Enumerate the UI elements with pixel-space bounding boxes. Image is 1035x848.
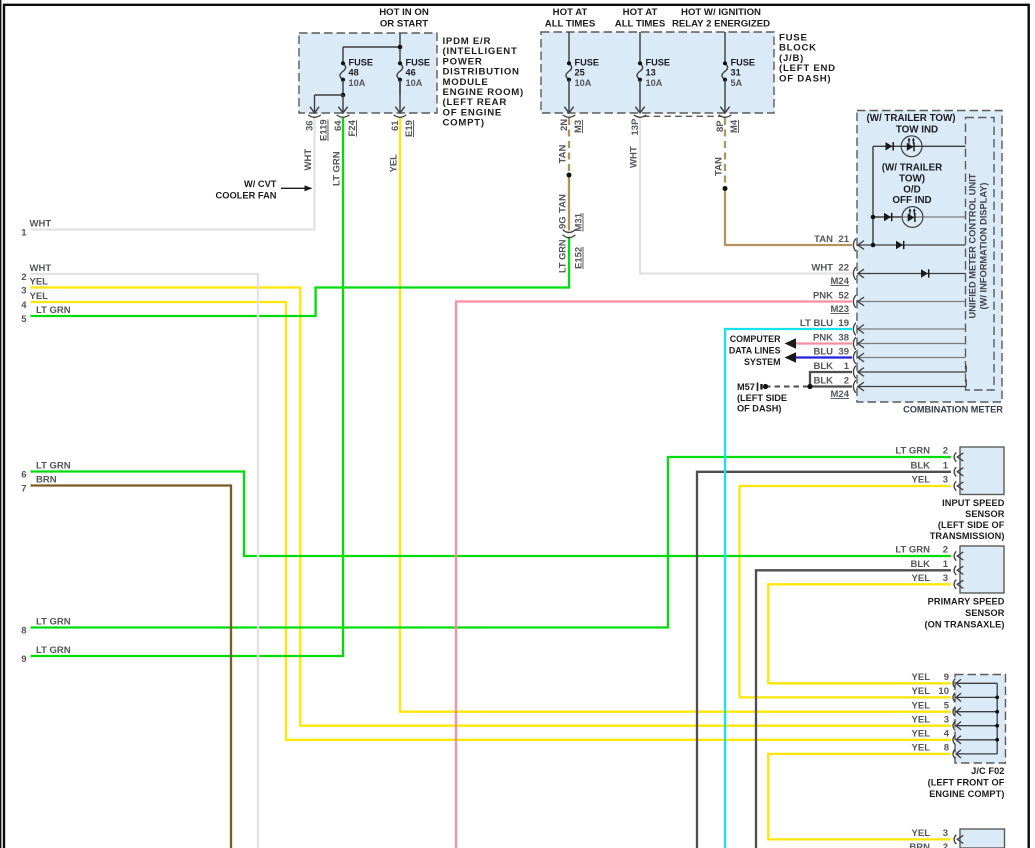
- svg-text:BLK: BLK: [910, 460, 930, 471]
- svg-text:LT GRN: LT GRN: [36, 645, 71, 656]
- wire TAN fuse 25 dashed segment: [568, 118, 570, 189]
- meter pin 38 inner wire: [858, 343, 966, 345]
- input speed sensor box: [960, 447, 1004, 495]
- svg-text:4: 4: [944, 728, 950, 739]
- svg-text:BLK: BLK: [910, 559, 930, 570]
- svg-text:WHT: WHT: [30, 219, 52, 230]
- diode on O/D branch: [884, 213, 891, 221]
- wire PNK meter pin 52 down off page: [456, 302, 852, 848]
- node: J/C bus junction: [995, 696, 999, 700]
- svg-text:10A: 10A: [646, 78, 663, 88]
- meter internal vertical bus: [872, 146, 874, 245]
- svg-text:5: 5: [944, 700, 950, 711]
- wire BLU meter pin 39 to data lines arrow: [794, 356, 852, 358]
- svg-text:HOT W/ IGNITION: HOT W/ IGNITION: [681, 7, 761, 18]
- svg-text:COMPT): COMPT): [443, 118, 485, 129]
- svg-text:FUSE: FUSE: [406, 58, 431, 68]
- svg-text:FUSE: FUSE: [575, 58, 600, 68]
- bottom box pin connector YEL 3: [954, 835, 956, 844]
- meter pin connector at y=386.5: [853, 380, 855, 393]
- svg-text:E19: E19: [404, 120, 415, 137]
- svg-text:TOW): TOW): [899, 174, 925, 185]
- diode on TOW IND branch: [886, 142, 893, 150]
- svg-text:3: 3: [944, 714, 949, 725]
- svg-text:2: 2: [844, 375, 849, 386]
- svg-text:BRN: BRN: [36, 475, 57, 486]
- svg-text:39: 39: [838, 346, 849, 357]
- primary speed sensor box: [960, 546, 1004, 593]
- J/C F02 pin connector y=739.8: [953, 735, 955, 744]
- svg-text:YEL: YEL: [912, 728, 931, 739]
- svg-text:3: 3: [21, 286, 26, 297]
- svg-text:SENSOR: SENSOR: [965, 509, 1005, 519]
- svg-text:O/D: O/D: [903, 185, 920, 196]
- svg-text:M31: M31: [574, 212, 585, 231]
- svg-text:HOT AT: HOT AT: [623, 7, 658, 18]
- wire W1 WHT row1 to IPDM pin 36: [31, 118, 315, 230]
- svg-text:19: 19: [838, 318, 849, 329]
- fuse block J/B box: [541, 32, 774, 113]
- wire YEL primary sensor pin3 to J/C F02 pin 9: [768, 584, 951, 683]
- node: J/C bus junction: [995, 738, 999, 742]
- svg-text:ENGINE COMPT): ENGINE COMPT): [929, 789, 1004, 799]
- LED O/D OFF IND: [902, 207, 923, 228]
- svg-text:M3: M3: [573, 120, 584, 133]
- meter pin connector at y=357.5: [853, 351, 855, 364]
- svg-text:COMBINATION METER: COMBINATION METER: [903, 405, 1003, 415]
- svg-text:2: 2: [21, 272, 26, 283]
- svg-text:8P: 8P: [715, 120, 726, 132]
- primary sensor pin connector y=584.3: [954, 580, 956, 589]
- svg-text:8: 8: [944, 743, 949, 754]
- svg-text:LT GRN: LT GRN: [36, 305, 71, 316]
- wire W2 WHT row2 down off page: [31, 274, 259, 848]
- wire W7 BRN row7 down off page: [31, 486, 232, 848]
- node: J/C bus junction: [995, 724, 999, 728]
- wire BLK meter pin1 to ground junction: [810, 372, 852, 387]
- svg-text:PRIMARY SPEED: PRIMARY SPEED: [928, 597, 1005, 607]
- O/D OFF IND branch wire: [873, 216, 901, 218]
- wire LT GRN fuse 48 down to row9: [31, 118, 344, 656]
- svg-text:ALL TIMES: ALL TIMES: [545, 19, 596, 30]
- svg-text:25: 25: [575, 67, 585, 77]
- svg-text:(ON TRANSAXLE): (ON TRANSAXLE): [924, 620, 1004, 630]
- J/C F02 pin connector y=725.7: [953, 721, 955, 730]
- svg-text:PNK: PNK: [813, 332, 833, 343]
- wire PNK meter pin 38 to data lines arrow: [794, 342, 852, 344]
- svg-text:9: 9: [944, 672, 949, 683]
- svg-text:OFF IND: OFF IND: [892, 195, 931, 206]
- svg-text:FUSE: FUSE: [646, 58, 671, 68]
- svg-text:6: 6: [21, 470, 26, 481]
- node: BLK junction near meter pins 1/2: [807, 384, 812, 389]
- IPDM pin 36 connector: [314, 95, 316, 112]
- svg-text:52: 52: [838, 290, 849, 301]
- in-line connector M31 / E152: [563, 230, 576, 233]
- svg-text:3: 3: [943, 475, 948, 486]
- input sensor pin connector y=471.8: [954, 467, 956, 476]
- input sensor pin connector y=486: [954, 481, 956, 490]
- svg-text:PNK: PNK: [813, 290, 833, 301]
- svg-text:10A: 10A: [575, 78, 592, 88]
- TOW IND branch wire: [873, 145, 966, 147]
- svg-text:36: 36: [305, 120, 316, 131]
- unified meter control unit inner box: [966, 118, 995, 391]
- meter pin 39 inner wire: [858, 357, 966, 359]
- svg-text:YEL: YEL: [912, 573, 931, 584]
- svg-text:64: 64: [333, 120, 344, 131]
- svg-text:7: 7: [21, 484, 26, 495]
- J/C F02 pin connector y=753.9: [953, 749, 955, 758]
- bottom connector box (cut off): [960, 829, 1005, 848]
- svg-text:YEL: YEL: [912, 714, 931, 725]
- node: O/D branch junction: [871, 215, 876, 220]
- meter pin connector at y=301.5: [853, 295, 855, 308]
- arrow to computer data lines (PNK): [785, 338, 797, 348]
- meter pin 22 inner wire with diode: [858, 273, 966, 275]
- svg-text:2N: 2N: [559, 119, 570, 131]
- svg-text:1: 1: [943, 460, 949, 471]
- svg-text:TRANSMISSION): TRANSMISSION): [930, 531, 1005, 541]
- svg-text:3: 3: [943, 573, 948, 584]
- meter pin 21 inner wire with diode: [858, 244, 966, 246]
- J/C F02 pin connector y=697.4: [953, 693, 955, 702]
- svg-text:YEL: YEL: [912, 475, 931, 486]
- node: TAN splice on fuse 31 wire: [723, 186, 728, 191]
- svg-text:(LEFT FRONT OF: (LEFT FRONT OF: [928, 778, 1005, 788]
- svg-text:BRN: BRN: [909, 842, 930, 848]
- svg-text:(LEFT SIDE OF: (LEFT SIDE OF: [938, 520, 1005, 530]
- svg-text:DATA LINES: DATA LINES: [729, 346, 781, 356]
- wire BLK input sensor pin1 down off page: [697, 472, 951, 848]
- svg-text:M24: M24: [831, 389, 850, 400]
- svg-text:YEL: YEL: [912, 686, 931, 697]
- LED TOW IND: [901, 136, 922, 157]
- wire WHT fuse 13 to meter pin 22: [640, 118, 852, 274]
- primary sensor pin connector y=570.3: [954, 566, 956, 575]
- W/ CVT COOLER FAN pointer arrow: [281, 187, 306, 189]
- junction connector J/C F02 box: [955, 675, 1006, 764]
- combination meter box: [857, 111, 1002, 403]
- svg-text:(W/ TRAILER: (W/ TRAILER: [882, 163, 942, 174]
- svg-text:BLK: BLK: [813, 361, 833, 372]
- svg-text:LT GRN: LT GRN: [558, 239, 568, 273]
- svg-text:8: 8: [21, 626, 26, 637]
- svg-text:(W/ INFORMATION DISPLAY): (W/ INFORMATION DISPLAY): [979, 182, 989, 309]
- wire W3 YEL row3 to J/C F02 pin 3: [31, 288, 952, 726]
- node: fuse 48 output junction: [341, 93, 346, 98]
- fuse 25 10A: [568, 32, 570, 63]
- svg-text:LT BLU: LT BLU: [800, 318, 833, 329]
- meter pin connector at y=273.5: [853, 267, 855, 280]
- svg-text:M23: M23: [831, 304, 849, 315]
- wire TAN fuse 31 to meter pin 21: [725, 189, 852, 246]
- fuse block connector strip line: [643, 115, 722, 117]
- wire TAN fuse 25 solid segment to M31 connector: [568, 175, 570, 231]
- svg-text:2: 2: [943, 446, 948, 457]
- svg-text:W/ CVT: W/ CVT: [244, 179, 277, 189]
- svg-text:TOW IND: TOW IND: [896, 125, 938, 136]
- svg-text:HOT IN ON: HOT IN ON: [379, 7, 429, 18]
- svg-text:10A: 10A: [406, 78, 423, 88]
- wire BLK primary sensor pin1 down off page: [756, 570, 951, 848]
- svg-text:5A: 5A: [731, 78, 743, 88]
- svg-text:FUSE: FUSE: [349, 58, 374, 68]
- svg-text:10: 10: [938, 686, 949, 697]
- svg-text:UNIFIED METER CONTROL UNIT: UNIFIED METER CONTROL UNIT: [968, 173, 978, 318]
- svg-text:1: 1: [844, 361, 850, 372]
- wire W8 LT GRN row8 to input sensor pin 2: [31, 457, 952, 628]
- svg-text:2: 2: [943, 545, 948, 556]
- svg-text:YEL: YEL: [912, 828, 931, 839]
- wire YEL J/C F02 pin 8 to bottom box pin 3: [768, 754, 951, 840]
- svg-text:21: 21: [838, 234, 849, 245]
- svg-text:E119: E119: [319, 119, 330, 141]
- svg-text:LT GRN: LT GRN: [895, 446, 930, 457]
- wire BLK meter pin2 from ground junction: [810, 385, 852, 387]
- fuse block pin connector below fuse 13: [639, 80, 641, 112]
- svg-text:10A: 10A: [349, 78, 366, 88]
- wire W5 LT GRN row5 to connector E152: [31, 237, 570, 316]
- svg-text:M4: M4: [729, 119, 740, 133]
- wire W6 LT GRN row6 to primary sensor pin 2: [31, 472, 952, 557]
- fuse 46 10A: [397, 63, 403, 79]
- svg-text:YEL: YEL: [912, 743, 931, 754]
- node: IPDM feed junction: [398, 45, 403, 50]
- meter pin connector at y=343.5: [853, 337, 855, 350]
- svg-text:YEL: YEL: [912, 700, 931, 711]
- meter pin connector at y=329: [853, 323, 855, 336]
- fuse 48 10A: [340, 63, 346, 79]
- svg-text:YEL: YEL: [389, 154, 400, 173]
- meter pin connector at y=372: [853, 366, 855, 379]
- svg-text:J/C F02: J/C F02: [971, 766, 1004, 776]
- svg-text:M57: M57: [737, 382, 755, 392]
- svg-text:9G: 9G: [558, 216, 569, 229]
- svg-text:38: 38: [838, 332, 849, 343]
- fuse block pin connector below fuse 31: [724, 80, 726, 112]
- svg-text:OF DASH): OF DASH): [779, 73, 831, 84]
- IPDM pin 61 connector: [399, 80, 401, 112]
- svg-text:YEL: YEL: [912, 672, 931, 683]
- svg-text:31: 31: [731, 67, 741, 77]
- meter pin connector at y=245: [853, 239, 855, 252]
- IPDM pin 64 connector: [342, 95, 344, 112]
- IPDM E/R module box: [299, 33, 437, 113]
- svg-text:TAN: TAN: [814, 234, 833, 245]
- meter pin 1 inner wire: [858, 371, 966, 373]
- svg-text:SYSTEM: SYSTEM: [744, 357, 781, 367]
- svg-text:YEL: YEL: [30, 277, 49, 288]
- svg-text:61: 61: [390, 120, 401, 131]
- J/C F02 pin connector y=711.7: [953, 707, 955, 716]
- node: TAN splice on fuse 25 wire: [567, 173, 572, 178]
- svg-text:M24: M24: [831, 276, 850, 287]
- fuse 13 10A: [639, 32, 641, 63]
- svg-text:WHT: WHT: [303, 149, 314, 171]
- svg-text:2: 2: [943, 842, 948, 848]
- meter pin 52 inner wire: [858, 301, 966, 303]
- svg-text:WHT: WHT: [629, 146, 640, 168]
- svg-text:48: 48: [349, 67, 359, 77]
- svg-text:46: 46: [406, 67, 416, 77]
- svg-text:1: 1: [21, 228, 27, 239]
- svg-text:OF DASH): OF DASH): [737, 404, 781, 414]
- svg-text:F24: F24: [347, 119, 358, 136]
- svg-text:3: 3: [943, 828, 948, 839]
- svg-text:4: 4: [21, 300, 27, 311]
- IPDM feed wire from HOT IN ON OR START: [399, 33, 401, 63]
- svg-text:BLU: BLU: [813, 346, 833, 357]
- svg-text:LT GRN: LT GRN: [36, 461, 71, 472]
- page border frame: [0, 0, 2, 848]
- svg-text:LT GRN: LT GRN: [895, 545, 930, 556]
- svg-text:LT GRN: LT GRN: [332, 151, 343, 186]
- svg-text:RELAY 2 ENERGIZED: RELAY 2 ENERGIZED: [672, 19, 770, 30]
- svg-text:1: 1: [943, 559, 949, 570]
- svg-text:COMPUTER: COMPUTER: [730, 334, 781, 344]
- svg-text:(LEFT SIDE: (LEFT SIDE: [737, 393, 787, 403]
- svg-text:13: 13: [646, 67, 656, 77]
- J/C F02 internal bus: [996, 683, 998, 754]
- svg-text:ALL TIMES: ALL TIMES: [615, 19, 666, 30]
- ground M57 symbol: [757, 383, 759, 392]
- svg-text:5: 5: [21, 314, 27, 325]
- fuse block pin connector below fuse 25: [568, 80, 570, 112]
- svg-text:BLK: BLK: [813, 375, 833, 386]
- svg-text:SENSOR: SENSOR: [965, 608, 1005, 618]
- wire BLK dashed to ground M57: [765, 386, 810, 388]
- svg-text:OR START: OR START: [380, 19, 428, 30]
- svg-text:COOLER FAN: COOLER FAN: [216, 190, 277, 200]
- svg-text:WHT: WHT: [811, 262, 833, 273]
- wire YEL from fuse 46 to J/C F02 pin 5: [400, 118, 951, 712]
- svg-text:HOT AT: HOT AT: [553, 7, 588, 18]
- svg-text:TAN: TAN: [558, 194, 569, 213]
- svg-text:WHT: WHT: [30, 263, 52, 274]
- svg-text:(W/ TRAILER TOW): (W/ TRAILER TOW): [866, 113, 955, 124]
- wire TAN fuse 31 dashed segment: [724, 118, 726, 189]
- svg-text:INPUT SPEED: INPUT SPEED: [942, 498, 1005, 508]
- svg-text:9: 9: [21, 654, 26, 665]
- meter pin 2 inner wire: [858, 386, 966, 388]
- svg-text:TAN: TAN: [558, 145, 569, 164]
- svg-text:FUSE: FUSE: [731, 58, 756, 68]
- svg-text:YEL: YEL: [30, 291, 49, 302]
- svg-text:13P: 13P: [630, 118, 641, 136]
- primary sensor pin connector y=556: [954, 551, 956, 560]
- arrow to computer data lines (BLU): [785, 352, 797, 362]
- input sensor pin connector y=457: [954, 452, 956, 461]
- svg-text:LT GRN: LT GRN: [36, 617, 71, 628]
- meter pin 19 inner wire: [858, 328, 966, 330]
- node: J/C bus junction: [995, 710, 999, 714]
- fuse 31 5A: [724, 32, 726, 63]
- wire W4 YEL row4 to J/C F02 pin 4: [31, 302, 952, 740]
- wire LT BLU meter pin 19 down off page: [725, 329, 852, 848]
- svg-text:TAN: TAN: [714, 157, 725, 176]
- wire YEL input sensor pin3 to J/C F02 pin 10: [740, 486, 952, 697]
- svg-text:E152: E152: [574, 247, 585, 269]
- J/C F02 pin connector y=683.3: [953, 679, 955, 688]
- svg-text:22: 22: [838, 262, 849, 273]
